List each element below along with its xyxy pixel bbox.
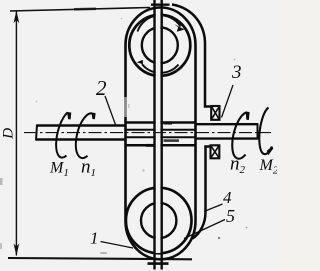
leader for 1	[101, 242, 134, 249]
bearing 3 lower block	[211, 145, 220, 158]
dimension extension line (top)	[10, 8, 150, 12]
dimension line D (vertical with arrows)	[15, 12, 17, 256]
shaft left end cap	[36, 125, 37, 141]
bearing 3 upper block	[211, 106, 219, 120]
rotation arrow (top pulley, upper arc)	[138, 15, 181, 31]
svg-text:5: 5	[226, 206, 235, 226]
bottom pulley 1 inner hub	[141, 203, 176, 238]
top pulley inner hub	[142, 27, 178, 63]
top pulley outer disc	[129, 15, 190, 76]
leader for 5	[184, 220, 225, 239]
hub sleeve upper line	[126, 121, 196, 124]
housing line 4 (right side, lower)	[193, 147, 211, 239]
rotation arrow M1 (curved C, head hooks down)	[56, 113, 67, 158]
centre tick (top)	[151, 3, 170, 5]
svg-text:2: 2	[96, 76, 107, 100]
carrier bar right line	[160, 0, 162, 270]
leader for 3	[222, 85, 234, 118]
rotation arrow n2 (curved C, head hooks down)	[232, 112, 246, 158]
housing line 4 (right side, upper)	[172, 5, 212, 107]
dim arrow down	[14, 244, 20, 257]
svg-text:D: D	[0, 128, 16, 140]
ink blobs at cross junction	[164, 121, 173, 124]
belt 5 (flexible loop around both pulleys)	[126, 8, 196, 260]
bottom pulley 1 outer disc	[126, 188, 192, 254]
shaft 2 top line (left segment)	[37, 124, 126, 126]
shaft 2 bottom line (left segment)	[36, 138, 126, 140]
ground line (bottom)	[8, 258, 192, 259]
axis centreline (dash-dot)	[24, 132, 271, 134]
rotation arrow M2 (curved C, head hooks down at bottom)	[259, 108, 272, 155]
svg-text:4: 4	[223, 188, 232, 207]
vertical column (carrier bar) white fill	[156, 12, 161, 253]
carrier bar left line	[153, 0, 155, 270]
shaft 2 top line (inside sleeve)	[126, 129, 196, 131]
shaft 2 bottom line (inside sleeve)	[126, 136, 196, 138]
rotation arrow (top pulley, lower arc)	[142, 64, 179, 73]
leader for 4	[204, 204, 223, 212]
hub sleeve lower line	[126, 144, 196, 147]
svg-text:1: 1	[90, 229, 99, 248]
leader for 2	[105, 96, 116, 126]
scan fade on belt left line	[124, 97, 127, 117]
shaft bottom line (right segment)	[196, 137, 258, 139]
shaft right end cap	[257, 123, 259, 139]
svg-text:3: 3	[231, 62, 242, 83]
ink thickening on top dim line	[74, 8, 96, 11]
rotation arrow n1 (curved C, head hooks down)	[76, 113, 92, 158]
centre tick (bottom)	[148, 262, 169, 265]
paper specks (scan noise)	[100, 252, 107, 254]
shaft top line (right segment)	[196, 123, 258, 125]
dim arrow up	[14, 11, 20, 24]
